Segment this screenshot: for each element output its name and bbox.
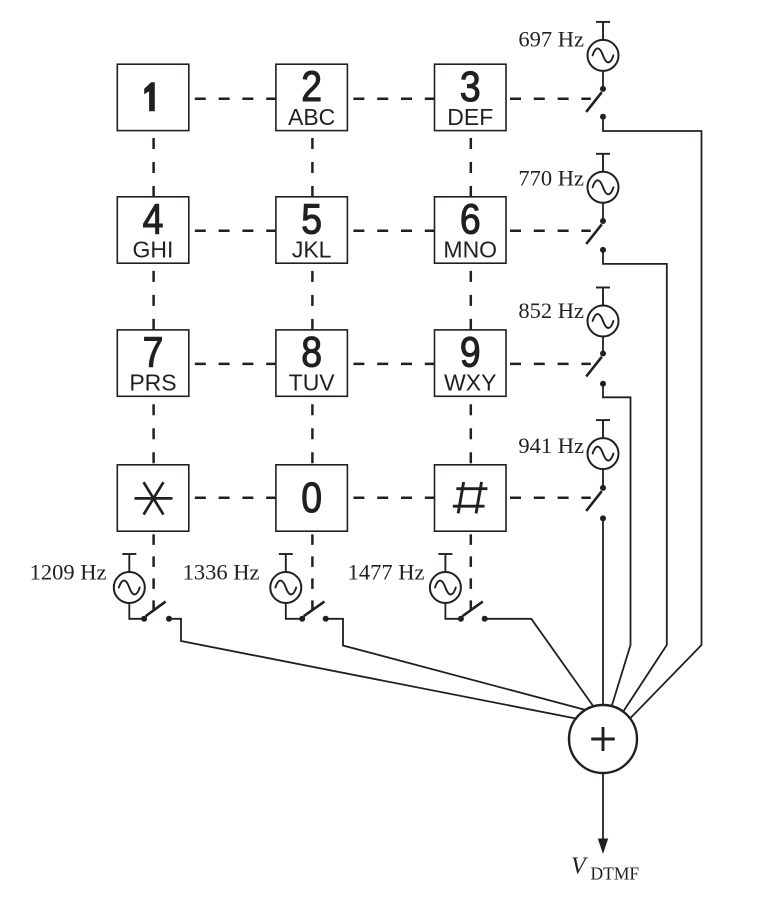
svg-text:JKL: JKL: [292, 236, 332, 262]
svg-text:PRS: PRS: [129, 370, 176, 396]
oscillator source 1477 Hz: [430, 554, 461, 603]
svg-text:DTMF: DTMF: [591, 864, 640, 884]
svg-text:941 Hz: 941 Hz: [518, 433, 584, 458]
oscillator source 941 Hz: [588, 420, 619, 469]
wire 697 Hz row wire to summer: [603, 117, 702, 719]
oscillator source 852 Hz: [588, 288, 619, 337]
svg-text:V: V: [571, 854, 588, 880]
svg-text:WXY: WXY: [444, 370, 496, 396]
oscillator source 1209 Hz: [114, 554, 145, 603]
wire dashed row link row 2: [195, 230, 591, 233]
button 9 keypad key: [435, 329, 507, 396]
switch S4 row 941 Hz: [586, 485, 606, 522]
summer U1 summing junction: [569, 705, 637, 773]
svg-text:1209 Hz: 1209 Hz: [30, 559, 107, 584]
svg-text:1336 Hz: 1336 Hz: [183, 559, 260, 584]
wire dashed column link column 3: [470, 138, 473, 611]
wire dashed row link row 4: [195, 496, 591, 499]
button 7 keypad key: [117, 329, 189, 396]
wire 1209 Hz column wire to summer: [169, 619, 576, 719]
wire oscillator 941 Hz to switch: [602, 469, 604, 488]
svg-text:TUV: TUV: [289, 370, 336, 396]
button 3 keypad key: [435, 64, 507, 131]
button 1 keypad key: [117, 64, 189, 130]
button 4 keypad key: [117, 196, 189, 263]
wire 941 Hz row wire to summer: [602, 518, 604, 705]
switch S2 row 770 Hz: [586, 218, 606, 253]
wire dashed row link row 1: [195, 98, 591, 101]
svg-text:770 Hz: 770 Hz: [518, 165, 584, 190]
svg-text:GHI: GHI: [133, 236, 174, 262]
switch S1 row 697 Hz: [586, 86, 606, 120]
node VDTMF output label: [571, 854, 639, 884]
switch S3 row 852 Hz: [586, 351, 606, 387]
svg-text:DEF: DEF: [447, 104, 493, 130]
wire oscillator 1336 Hz to switch: [286, 603, 302, 619]
svg-text:697 Hz: 697 Hz: [518, 27, 584, 52]
button 2 keypad key: [276, 64, 348, 131]
button 5 keypad key: [276, 196, 348, 263]
button star keypad key: [117, 465, 189, 531]
wire 1336 Hz column wire to summer: [326, 619, 586, 710]
wire 1477 Hz column wire to summer: [485, 619, 594, 707]
wire 852 Hz row wire to summer: [603, 384, 631, 706]
svg-text:852 Hz: 852 Hz: [518, 298, 584, 323]
wire dashed column link column 1: [152, 138, 155, 611]
svg-text:MNO: MNO: [443, 236, 497, 262]
wire oscillator 852 Hz to switch: [602, 337, 604, 354]
wire oscillator 697 Hz to switch: [602, 71, 604, 89]
oscillator source 1336 Hz: [270, 554, 301, 603]
switch S6 column 1336 Hz: [299, 602, 329, 622]
button 6 keypad key: [435, 196, 507, 263]
switch S7 column 1477 Hz: [458, 602, 488, 622]
wire output arrow: [598, 773, 608, 854]
svg-text:0: 0: [301, 475, 322, 522]
wire 770 Hz row wire to summer: [603, 250, 667, 712]
wire dashed column link column 2: [311, 138, 314, 611]
button 8 keypad key: [276, 329, 348, 396]
button 0 keypad key: [276, 465, 348, 531]
oscillator source 697 Hz: [588, 22, 619, 71]
wire oscillator 1209 Hz to switch: [129, 603, 144, 619]
oscillator source 770 Hz: [588, 154, 619, 203]
button pound keypad key: [435, 465, 507, 531]
wire dashed row link row 3: [195, 363, 591, 366]
svg-text:1477 Hz: 1477 Hz: [348, 559, 425, 584]
switch S5 column 1209 Hz: [141, 602, 172, 622]
wire oscillator 1477 Hz to switch: [445, 603, 461, 619]
svg-text:ABC: ABC: [288, 104, 335, 130]
wire oscillator 770 Hz to switch: [602, 203, 604, 221]
